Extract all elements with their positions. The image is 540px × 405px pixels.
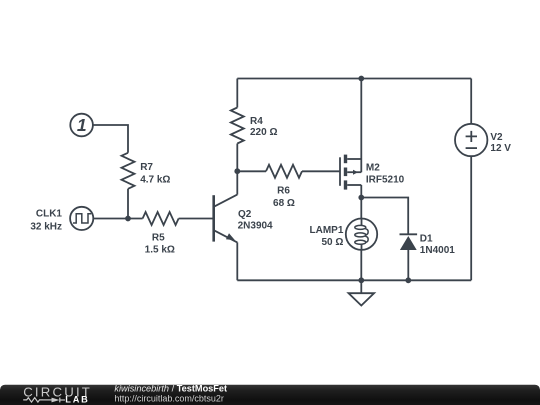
svg-text:1: 1 xyxy=(77,115,87,135)
junction dot M2 drain node xyxy=(358,195,364,201)
voltage source V2 xyxy=(470,79,472,124)
svg-text:http://circuitlab.com/cbtsu2r: http://circuitlab.com/cbtsu2r xyxy=(114,394,224,404)
footer bar xyxy=(0,385,540,405)
wire R5 to Q2 base xyxy=(179,218,213,220)
svg-text:12 V: 12 V xyxy=(490,143,511,154)
ground xyxy=(360,280,362,293)
resistor R4 xyxy=(236,79,238,108)
svg-text:1.5 kΩ: 1.5 kΩ xyxy=(145,245,175,256)
junction dot D1/rail xyxy=(405,277,411,283)
resistor R6 xyxy=(266,165,302,178)
svg-text:IRF5210: IRF5210 xyxy=(366,174,405,185)
mosfet M2 xyxy=(339,157,341,186)
svg-text:D1: D1 xyxy=(420,233,433,244)
svg-text:R7: R7 xyxy=(140,162,153,173)
svg-text:2N3904: 2N3904 xyxy=(238,220,273,231)
wire R7 bottom to CLK node xyxy=(127,189,129,219)
wire Q2 emitter down to bottom rail xyxy=(236,242,238,280)
junction dot top rail / M2 source xyxy=(358,76,364,82)
lamp LAMP1 xyxy=(360,198,362,219)
svg-text:CLK1: CLK1 xyxy=(36,209,63,220)
svg-text:4.7 kΩ: 4.7 kΩ xyxy=(140,174,170,185)
junction dot CLK/R7 node xyxy=(125,216,131,222)
wire Q2 collector up to R6 node xyxy=(236,171,238,194)
resistor R7 xyxy=(122,153,135,189)
wire CLK1 to R5 xyxy=(93,218,142,220)
svg-text:1N4001: 1N4001 xyxy=(420,245,455,256)
svg-text:220 Ω: 220 Ω xyxy=(250,127,277,138)
transistor Q2 xyxy=(212,195,215,241)
node 1 xyxy=(70,114,93,137)
svg-text:R4: R4 xyxy=(250,116,263,127)
svg-text:R5: R5 xyxy=(152,232,165,243)
svg-text:R6: R6 xyxy=(277,186,290,197)
wire drain node to D1 xyxy=(361,198,408,235)
svg-text:kiwisincebirth / TestMosFet: kiwisincebirth / TestMosFet xyxy=(114,383,227,393)
svg-text:32 kHz: 32 kHz xyxy=(30,221,62,232)
svg-text:LAB: LAB xyxy=(65,395,89,405)
junction dot lamp/ground xyxy=(358,277,364,283)
resistor R5 xyxy=(143,212,179,225)
svg-text:M2: M2 xyxy=(366,163,380,174)
bottom rail xyxy=(237,279,471,281)
diode D1 xyxy=(400,233,418,235)
svg-text:50 Ω: 50 Ω xyxy=(321,237,343,248)
svg-text:LAMP1: LAMP1 xyxy=(309,225,343,236)
top rail xyxy=(237,78,471,80)
junction dot R4/R6/collector xyxy=(234,168,240,174)
footer logo resistor-diode glyph xyxy=(23,398,65,403)
wire node to R6 xyxy=(237,170,266,172)
svg-text:V2: V2 xyxy=(490,132,503,143)
svg-text:Q2: Q2 xyxy=(238,209,252,220)
wire node1 to R7 top xyxy=(93,125,128,153)
clock source CLK1 xyxy=(70,207,93,230)
svg-text:68 Ω: 68 Ω xyxy=(273,198,295,209)
wire R6 to M2 gate xyxy=(302,170,340,172)
